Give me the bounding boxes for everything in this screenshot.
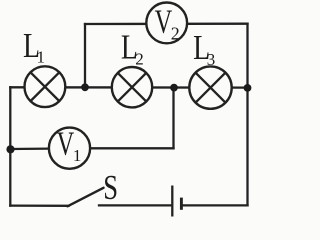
node junction dot between L1 and L2 (81, 83, 89, 91)
wire V1 branch right (90, 147, 173, 149)
svg-text:2: 2 (135, 50, 144, 69)
wire battery to right rail (183, 204, 248, 206)
voltmeter V1 (49, 126, 90, 169)
lamp L2 (112, 67, 152, 107)
battery short plate (negative) (180, 198, 183, 210)
svg-text:S: S (103, 169, 118, 207)
svg-text:1: 1 (37, 47, 46, 66)
svg-text:3: 3 (207, 50, 216, 69)
node junction dot between L2 and L3 (170, 84, 178, 92)
svg-text:2: 2 (171, 23, 180, 43)
node junction dot right rail (244, 84, 252, 92)
label L3 (193, 29, 215, 69)
label L1 (23, 27, 45, 66)
node junction dot left rail at V1 branch (6, 145, 14, 153)
lamp L1 (25, 66, 66, 107)
voltmeter V2 (146, 3, 187, 44)
svg-text:1: 1 (73, 146, 82, 165)
wire lamp row (10, 86, 247, 89)
wire right rail (246, 24, 248, 206)
label L2 (121, 28, 144, 68)
wire V1 branch left (10, 147, 49, 150)
wire left rail (9, 87, 11, 205)
svg-text:V: V (57, 126, 75, 163)
lamp L3 (189, 66, 231, 108)
wire bottom left to switch (10, 204, 68, 206)
wire V1 branch vertical up to node between L2 and L3 (172, 88, 174, 149)
battery long plate (positive) (171, 186, 173, 217)
wire voltmeter V2 loop left vertical (84, 24, 86, 87)
wire switch right contact to battery (99, 204, 171, 206)
switch S blade (68, 188, 104, 207)
wire top horizontal to V2 (85, 23, 248, 26)
